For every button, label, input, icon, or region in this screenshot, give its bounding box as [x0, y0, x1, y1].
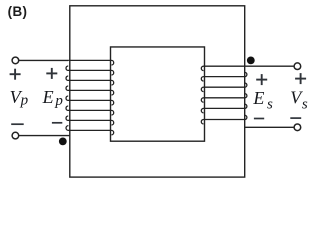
transformer core window (inner rectangle)	[111, 47, 205, 141]
terminal bottom-left (Vp -)	[12, 132, 19, 139]
terminal top-right (Vs +)	[294, 63, 301, 70]
plus sign at Vp terminal	[10, 69, 21, 80]
wire: secondary winding to bottom-right terminal	[245, 126, 294, 128]
secondary winding Ls (coil on right core limb)	[201, 66, 247, 124]
svg-text:Es: Es	[252, 88, 273, 113]
polarity dot, primary (bottom-left)	[59, 138, 67, 146]
minus sign at Es (secondary winding)	[254, 118, 264, 120]
plus sign at Vs terminal	[295, 73, 306, 84]
terminal top-left (Vp +)	[12, 57, 19, 64]
plus sign at Ep (primary winding)	[46, 68, 57, 79]
minus sign at Vp terminal	[11, 123, 24, 125]
transformer core outer outline	[70, 6, 245, 177]
svg-text:Vp: Vp	[10, 87, 29, 109]
minus sign at Ep (primary winding)	[52, 122, 62, 124]
wire: secondary winding to top-right terminal	[245, 65, 294, 67]
wire: bottom-left terminal to primary winding	[19, 135, 71, 137]
svg-text:Ep: Ep	[42, 87, 64, 109]
primary winding Lp (coil on left core limb)	[66, 60, 114, 134]
terminal bottom-right (Vs -)	[294, 124, 301, 131]
svg-text:Vs: Vs	[290, 88, 308, 113]
svg-text:(B): (B)	[8, 4, 28, 19]
wire: top-left terminal to primary winding	[19, 59, 68, 61]
polarity dot, secondary (top-right)	[247, 57, 255, 65]
plus sign at Es (secondary winding)	[256, 74, 267, 85]
minus sign at Vs terminal	[290, 117, 301, 119]
